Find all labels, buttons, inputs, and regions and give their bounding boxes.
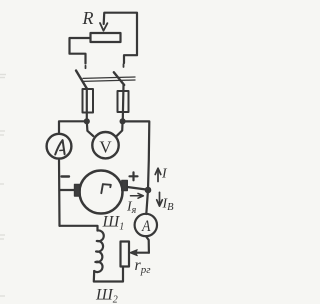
wire left rail to shunt coil top xyxy=(60,226,98,231)
fuse FU1 body xyxy=(83,89,94,113)
brush right xyxy=(122,181,128,191)
wire left node to ammeter top xyxy=(59,121,87,134)
wire from slider to top-right corner and down to switch right contact xyxy=(104,13,137,63)
wire right node to right rail down to plus node xyxy=(123,121,150,189)
voltmeter V circle xyxy=(92,132,118,158)
wire coil bottom to field rheostat bottom xyxy=(94,267,123,282)
shunt field winding coil xyxy=(94,230,104,272)
ammeter A1 circle xyxy=(47,134,72,159)
wire field ammeter down xyxy=(146,236,149,253)
svg-text:R: R xyxy=(82,8,94,28)
resistor R body xyxy=(91,33,121,42)
brush left xyxy=(75,185,81,197)
generator letter xyxy=(101,184,111,193)
junction node left xyxy=(84,119,89,124)
junction node plus xyxy=(145,187,151,193)
switch left blade xyxy=(76,71,87,89)
fuse FU2 wire xyxy=(122,85,125,119)
fuse FU1 wire xyxy=(86,89,88,120)
current arrow I xyxy=(155,168,161,181)
svg-text:A: A xyxy=(141,218,151,235)
switch left contact dash xyxy=(85,66,87,68)
voltmeter stub left xyxy=(87,121,93,136)
ammeter A1 letter xyxy=(55,140,64,154)
current arrow Iya xyxy=(131,193,144,198)
wire plus brush to plus node xyxy=(127,187,147,190)
switch right contact dash xyxy=(123,64,125,67)
plus label xyxy=(130,172,138,180)
wire left rail to generator minus brush xyxy=(60,189,75,191)
rheostat slider arrow xyxy=(100,14,107,31)
field ammeter A2 circle xyxy=(135,214,157,236)
svg-text:V: V xyxy=(99,137,112,156)
switch crossbar xyxy=(83,77,135,81)
switch right blade xyxy=(114,72,124,85)
wire ammeter A1 to left rail down xyxy=(58,159,61,226)
voltmeter stub right xyxy=(116,121,122,136)
junction node right xyxy=(120,119,125,124)
fuse FU2 body xyxy=(118,91,129,112)
page edge artifact marks xyxy=(0,75,6,297)
current arrow Iv xyxy=(157,192,163,206)
minus label xyxy=(62,175,70,177)
field rheostat body xyxy=(121,242,130,267)
rheostat tap arrow xyxy=(130,250,149,256)
wire from resistor left terminal to switch left contact xyxy=(70,38,91,64)
generator circle xyxy=(80,171,123,214)
wire plus node to field ammeter xyxy=(146,190,148,214)
